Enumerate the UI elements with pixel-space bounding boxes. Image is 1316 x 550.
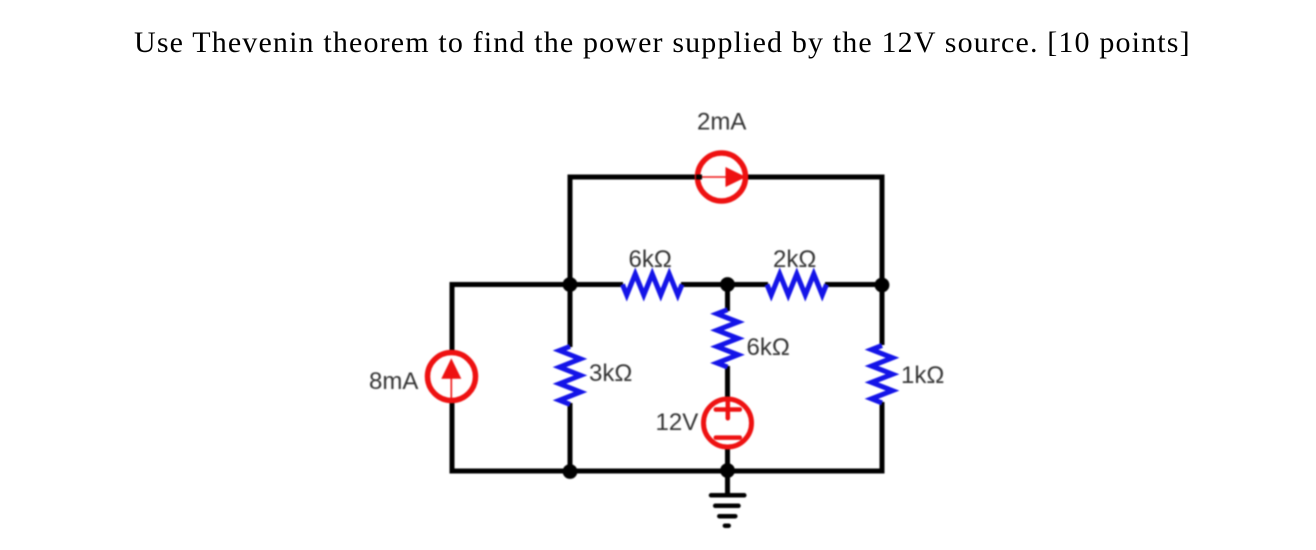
- svg-text:Use Thevenin theorem to find t: Use Thevenin theorem to find the power s…: [134, 26, 1191, 59]
- node E junction dot: [720, 463, 735, 478]
- wire middle horizontal right of 2k: [825, 282, 882, 287]
- resistor 2k horizontal: [767, 274, 827, 295]
- svg-text:1kΩ: 1kΩ: [901, 362, 944, 389]
- wire right branch upper: [880, 175, 885, 346]
- node A junction dot: [563, 277, 578, 292]
- wire node B vertical to middle 6k resistor: [725, 285, 730, 312]
- node D junction dot: [563, 464, 578, 479]
- wire top-left segment to 2mA source: [570, 175, 702, 180]
- resistor 3k vertical: [560, 346, 581, 404]
- wire top-right segment from 2mA source: [746, 175, 885, 180]
- wire middle horizontal between 6k and 2k: [681, 282, 768, 287]
- wire left branch below 8mA source: [450, 402, 455, 474]
- wire right branch below 1k resistor: [880, 402, 885, 474]
- wire below 3k resistor: [568, 403, 573, 471]
- svg-text:6kΩ: 6kΩ: [747, 334, 790, 361]
- svg-text:3kΩ: 3kΩ: [589, 360, 632, 387]
- svg-text:12V: 12V: [656, 409, 699, 436]
- svg-text:2mA: 2mA: [697, 109, 746, 136]
- wire middle horizontal left of 6k: [452, 282, 623, 287]
- resistor 6k vertical: [717, 310, 738, 367]
- ground stem wire: [725, 471, 730, 494]
- node B junction dot: [720, 277, 735, 292]
- wire bottom rail: [450, 469, 885, 474]
- wire below 12V source to bottom rail: [725, 448, 730, 471]
- ground: [711, 495, 744, 525]
- svg-text:6kΩ: 6kΩ: [629, 246, 672, 273]
- voltage source 12V: [704, 399, 752, 447]
- node C junction dot: [875, 278, 890, 293]
- wire left vertical of top loop: [568, 175, 573, 288]
- resistor 6k horizontal: [623, 274, 683, 295]
- wire left branch above 8mA source: [450, 282, 455, 351]
- current source 2mA: [696, 153, 746, 201]
- wire between middle 6k resistor and 12V source: [725, 366, 730, 403]
- svg-text:2kΩ: 2kΩ: [773, 246, 816, 273]
- wire node A vertical to 3k resistor: [568, 285, 573, 348]
- svg-text:8mA: 8mA: [369, 368, 418, 395]
- current source 8mA: [428, 353, 476, 403]
- resistor 1k vertical: [872, 346, 893, 403]
